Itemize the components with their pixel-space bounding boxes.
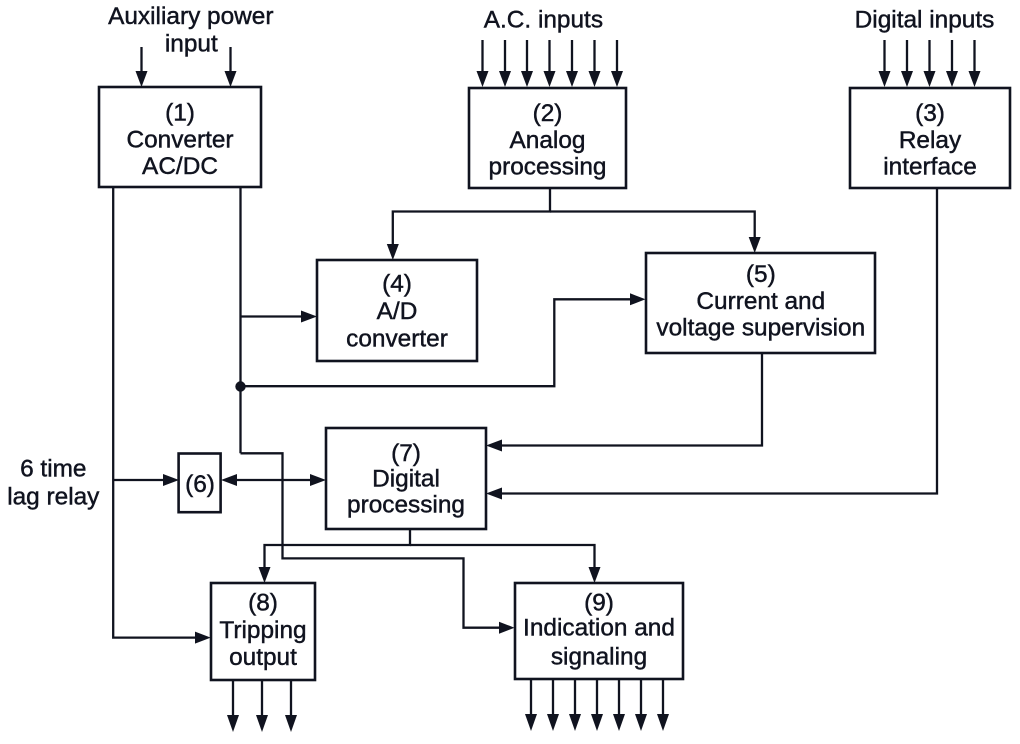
svg-text:converter: converter <box>346 325 448 352</box>
svg-text:A/D: A/D <box>377 298 418 325</box>
wire rail continues to box9 left <box>241 453 501 627</box>
wire A.C. input arrow 1 <box>481 40 483 73</box>
svg-text:processing: processing <box>489 154 607 181</box>
svg-text:(7): (7) <box>391 440 421 467</box>
wire box8 output arrow 3 <box>290 680 292 717</box>
box (5) Current and voltage supervision <box>646 253 875 353</box>
box (7) Digital processing <box>326 428 486 529</box>
wire digital input arrow 1 <box>883 40 885 73</box>
wire box2 output tee <box>393 188 550 245</box>
svg-text:(3): (3) <box>915 100 945 127</box>
wire box9 output arrow 7 <box>662 679 664 716</box>
wire A.C. input arrow 6 <box>593 40 595 73</box>
box (3) Relay interface <box>850 88 1010 188</box>
svg-text:Relay: Relay <box>899 127 962 154</box>
svg-text:output: output <box>229 644 297 671</box>
wire box9 output arrow 3 <box>574 679 576 716</box>
wire box8 output arrow 1 <box>232 680 234 717</box>
wire A.C. input arrow 5 <box>571 40 573 73</box>
svg-text:voltage supervision: voltage supervision <box>656 315 865 342</box>
wire A.C. input arrow 2 <box>504 40 506 73</box>
svg-text:(5): (5) <box>746 261 776 288</box>
svg-text:A.C. inputs: A.C. inputs <box>484 6 603 33</box>
wire aux power input arrow right <box>229 47 231 73</box>
svg-text:Indication and: Indication and <box>523 614 675 641</box>
wire digital input arrow 5 <box>973 40 975 73</box>
svg-text:Digital inputs: Digital inputs <box>855 6 995 33</box>
svg-text:lag relay: lag relay <box>7 483 100 510</box>
svg-text:interface: interface <box>883 154 977 181</box>
box (4) A/D converter <box>317 260 477 361</box>
wire box9 output arrow 5 <box>618 679 620 716</box>
svg-text:(6): (6) <box>185 471 215 498</box>
wire box2 tee right to box5 top <box>550 212 755 239</box>
wire box7 tee right to box9 top <box>410 545 595 568</box>
wire A.C. input arrow 3 <box>526 40 528 73</box>
wire box1 right rail down <box>239 187 241 453</box>
wire A.C. input arrow 4 <box>548 40 550 73</box>
wire double arrow box6 to box7 <box>237 479 311 481</box>
wire box9 output arrow 6 <box>640 679 642 716</box>
svg-text:6 time: 6 time <box>20 456 86 483</box>
wire digital input arrow 3 <box>928 40 930 73</box>
wire box1 left power rail down to box8 <box>113 187 196 638</box>
node junction dot <box>235 381 245 391</box>
wire from dot to box5 left <box>241 299 632 386</box>
svg-text:(1): (1) <box>165 99 195 126</box>
svg-text:processing: processing <box>347 492 465 519</box>
svg-text:(4): (4) <box>382 270 412 297</box>
box (1) Converter AC/DC <box>99 87 261 187</box>
wire branch to box6 <box>113 479 164 481</box>
wire branch to box4 left <box>241 315 303 317</box>
svg-text:(2): (2) <box>533 100 563 127</box>
svg-text:Converter: Converter <box>126 127 233 154</box>
box (6) time lag relay <box>179 454 221 513</box>
box (9) Indication and signaling <box>515 583 683 679</box>
wire box9 output arrow 4 <box>596 679 598 716</box>
wire box5 bottom to box7 right <box>501 353 762 446</box>
svg-text:signaling: signaling <box>551 644 647 671</box>
wire digital input arrow 4 <box>951 40 953 73</box>
wire box9 output arrow 1 <box>530 679 532 716</box>
wire box9 output arrow 2 <box>552 679 554 716</box>
box (8) Tripping output <box>211 583 315 680</box>
svg-text:(8): (8) <box>248 589 278 616</box>
wire digital input arrow 2 <box>906 40 908 73</box>
wire box8 output arrow 2 <box>261 680 263 717</box>
wire A.C. input arrow 7 <box>616 40 618 73</box>
svg-text:(9): (9) <box>584 590 614 617</box>
svg-text:Tripping: Tripping <box>219 617 306 644</box>
wire aux power input arrow left <box>140 47 142 73</box>
svg-text:input: input <box>165 31 218 58</box>
wire box7 bottom tee <box>265 529 411 568</box>
box (2) Analog processing <box>469 88 626 188</box>
wire box3 bottom to box7 right <box>501 188 937 494</box>
svg-text:Auxiliary power: Auxiliary power <box>108 3 273 30</box>
svg-text:Analog: Analog <box>510 127 586 154</box>
svg-text:AC/DC: AC/DC <box>142 153 218 180</box>
svg-text:Digital: Digital <box>372 466 440 493</box>
svg-text:Current and: Current and <box>696 288 825 315</box>
